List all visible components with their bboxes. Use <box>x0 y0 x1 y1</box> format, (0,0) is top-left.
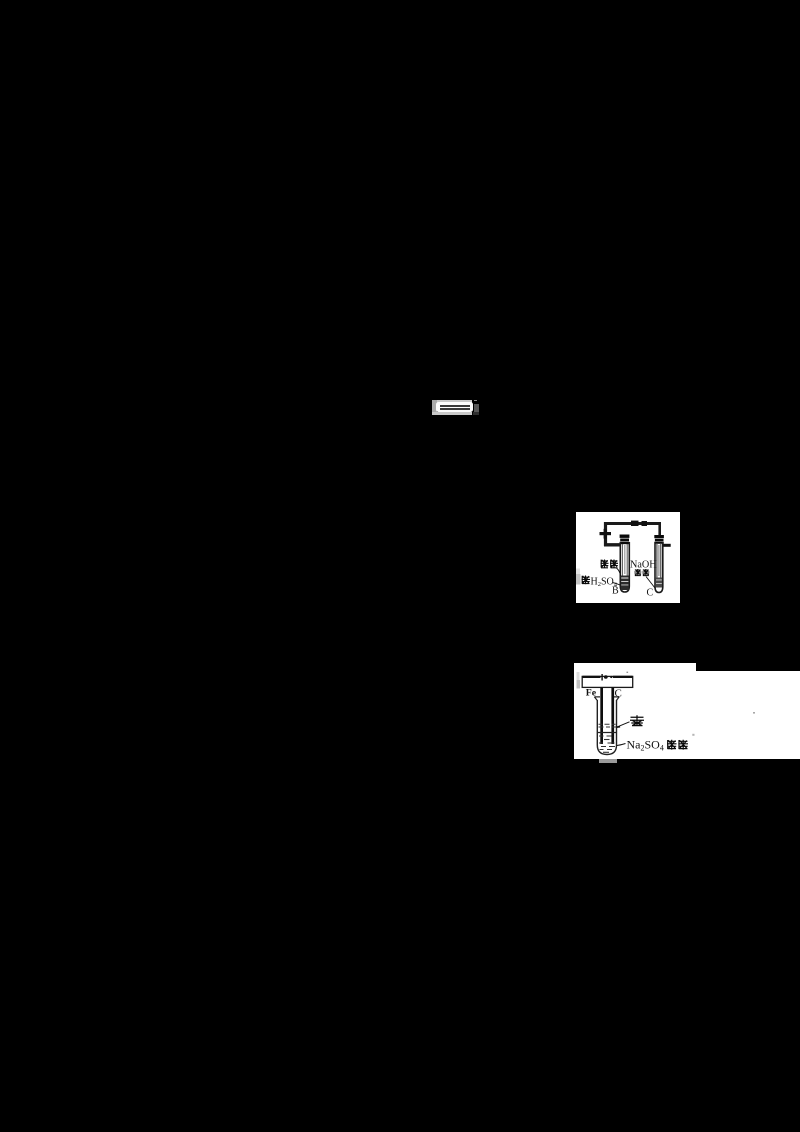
apparatus 2 ink drawing <box>574 663 800 760</box>
svg-text:NaOH: NaOH <box>630 559 657 570</box>
apparatus image 2: electrolysis cell, white backing main rect <box>574 671 800 759</box>
wire right on plate top <box>613 676 633 678</box>
ammeter dash 1 on top wire <box>631 520 639 525</box>
leader line from H2SO4 to tube B <box>613 582 621 585</box>
apparatus image 2 white backing top-left step <box>574 663 696 672</box>
leader line from 溶液 to tube C <box>646 576 655 588</box>
equals line 2 <box>440 408 470 410</box>
apparatus image 1: two connected test tubes B and C <box>576 512 680 603</box>
battery plus sign vertical bar <box>604 528 607 538</box>
gray fringe bottom <box>432 412 472 415</box>
wire bottom horizontal to tube B <box>604 543 621 546</box>
test tube mouth flare <box>594 697 619 701</box>
battery cell round blob <box>604 675 608 679</box>
test tube B walls <box>620 542 629 592</box>
stopper of tube C <box>654 535 664 544</box>
wire right vertical to tube C <box>658 522 661 537</box>
solution dashes in tube <box>599 736 615 752</box>
gray scan bar light <box>576 568 580 574</box>
wire stub right of tube C <box>664 543 671 546</box>
label C <box>647 587 654 598</box>
svg-text:Na2SO4: Na2SO4 <box>627 738 664 753</box>
wire left on plate top <box>583 676 601 678</box>
leader line to Na2SO4 label <box>617 744 626 746</box>
label H2SO4 <box>591 576 618 588</box>
Fe electrode rod <box>600 687 603 744</box>
C electrode rod <box>611 687 614 744</box>
wire top horizontal <box>604 522 661 525</box>
gray shadow under test tube <box>599 759 617 763</box>
gray fringe left <box>432 400 437 416</box>
gray scan bar left edge <box>577 672 581 689</box>
label 苯 (benzene) <box>630 715 644 726</box>
gray scan bar dark <box>576 574 581 585</box>
gray fringe top <box>432 400 472 404</box>
label NaOH <box>630 559 657 570</box>
light speck in white area <box>692 734 694 736</box>
gray dot top-right <box>474 400 478 401</box>
leader line to 苯 <box>617 722 630 727</box>
label 稀 (dilute) <box>582 575 591 584</box>
battery cell vertical bar <box>601 674 602 681</box>
white rounded box <box>436 402 473 412</box>
equals line 1 <box>440 405 470 407</box>
label Na2SO4 <box>627 738 664 753</box>
stopper of tube B <box>620 534 630 544</box>
benzene layer bottom line <box>598 732 616 734</box>
label C electrode <box>615 688 622 700</box>
NaOH solution fill in tube C <box>656 577 662 587</box>
electrode holder plate outline <box>582 676 633 687</box>
benzene layer dashes <box>599 724 617 727</box>
iron powder + acid fill in tube B <box>621 575 629 590</box>
leader line from 铁粉 to tube B <box>617 568 621 576</box>
label B <box>612 585 619 596</box>
svg-text:C: C <box>647 587 654 598</box>
label Fe <box>586 688 597 699</box>
dark blob bottom-right <box>473 412 479 415</box>
faint dot far right <box>753 712 755 714</box>
test tube walls <box>597 700 616 755</box>
battery cell small dot <box>610 676 612 678</box>
reaction-condition equals image (white box with double line) <box>432 399 479 416</box>
ammeter dash 2 on top wire <box>642 521 648 526</box>
label 铁粉 (iron powder) <box>601 559 619 568</box>
test tube C walls <box>655 542 663 593</box>
label 溶液 after Na2SO4 <box>667 740 688 750</box>
svg-text:B: B <box>612 585 619 596</box>
battery plus sign horizontal bar <box>600 532 612 535</box>
tiny speck above plate right <box>627 672 629 673</box>
wire left vertical <box>604 522 607 546</box>
dark blob right <box>474 404 479 412</box>
label 溶液 (solution) under NaOH <box>634 569 649 576</box>
